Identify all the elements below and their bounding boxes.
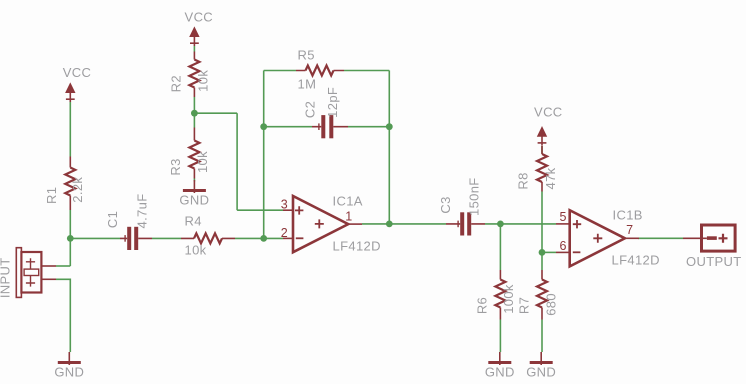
- svg-text:C2: C2: [302, 101, 317, 118]
- resistor R2: [189, 52, 199, 98]
- wire VCC to R8: [541, 146, 543, 154]
- svg-text:VCC: VCC: [534, 104, 563, 119]
- svg-text:10k: 10k: [195, 70, 210, 92]
- ground under R7: [530, 352, 553, 365]
- resistor R3: [189, 128, 199, 179]
- supply symbol VCC1: [66, 84, 75, 103]
- junction R7-R8 pin6 node: [539, 249, 546, 256]
- svg-text:6: 6: [560, 239, 567, 253]
- wire R4 to IC1A pin2: [235, 237, 283, 239]
- resistor R6: [495, 270, 505, 320]
- svg-text:LF412D: LF412D: [612, 253, 660, 268]
- svg-text:R6: R6: [475, 297, 490, 314]
- svg-text:R2: R2: [169, 75, 184, 92]
- microphone INPUT connector: [16, 248, 56, 298]
- svg-text:GND: GND: [526, 365, 556, 380]
- wire R7 to GND: [541, 320, 543, 353]
- svg-text:R7: R7: [517, 297, 532, 314]
- svg-text:10k: 10k: [195, 151, 210, 173]
- capacitor C2: [312, 115, 348, 138]
- svg-text:2.2k: 2.2k: [70, 177, 85, 203]
- svg-text:IC1B: IC1B: [613, 208, 643, 223]
- resistor R8: [537, 146, 547, 192]
- wire MIC pin1 horizontal: [56, 265, 70, 267]
- wire pin3 row: [237, 209, 283, 211]
- wire R1 to input node: [69, 210, 71, 238]
- resistor R5: [296, 66, 344, 76]
- ground under MIC: [58, 352, 81, 365]
- wire feedback right vertical: [388, 71, 390, 224]
- svg-text:12pF: 12pF: [325, 87, 340, 118]
- svg-text:1M: 1M: [298, 77, 317, 92]
- svg-text:IC1A: IC1A: [333, 194, 363, 209]
- svg-text:VCC: VCC: [185, 10, 214, 25]
- svg-text:10k: 10k: [185, 243, 207, 258]
- svg-text:5: 5: [560, 210, 567, 224]
- svg-text:VCC: VCC: [63, 65, 92, 80]
- wire C3 to pin5: [485, 223, 556, 225]
- wire feedback top left to R5: [264, 70, 296, 72]
- OUTPUT connector: [683, 225, 735, 251]
- wire IC1B output to OUTPUT: [638, 237, 683, 239]
- resistor R1: [65, 157, 75, 211]
- svg-text:GND: GND: [179, 193, 209, 208]
- wire pin6 node down to R7: [541, 252, 543, 270]
- wire input node to MIC pin1: [69, 238, 71, 266]
- svg-text:47k: 47k: [543, 167, 558, 189]
- wire R5 to feedback top right: [344, 70, 389, 72]
- svg-text:3: 3: [281, 198, 288, 212]
- capacitor C3: [446, 212, 485, 235]
- resistor R4: [181, 233, 235, 243]
- wire C2 row left: [264, 126, 312, 128]
- ground under R6: [488, 352, 511, 365]
- wire R3 to GND: [193, 179, 195, 182]
- junction C2 right node: [386, 123, 393, 130]
- wire input node to C1: [70, 237, 120, 239]
- svg-text:INPUT: INPUT: [0, 257, 12, 298]
- wire R8 down to pin6 node: [541, 192, 543, 253]
- svg-text:R3: R3: [168, 158, 183, 175]
- svg-text:C1: C1: [105, 211, 120, 228]
- svg-text:4.7uF: 4.7uF: [135, 194, 150, 229]
- supply symbol VCC2: [190, 28, 199, 47]
- wire C2 row right: [348, 126, 389, 128]
- junction IC1A output node: [386, 221, 393, 228]
- junction input node: [67, 235, 74, 242]
- svg-text:OUTPUT: OUTPUT: [686, 254, 742, 269]
- wire R6 to GND: [499, 320, 501, 353]
- wire IC1A output to C3: [362, 223, 446, 225]
- svg-text:2: 2: [281, 226, 288, 240]
- wire R2R3 node to pin3 riser: [194, 112, 237, 114]
- op-amp IC1B: [556, 210, 639, 266]
- supply symbol VCC3: [538, 127, 547, 146]
- wire C3 node down to R6: [499, 224, 501, 270]
- svg-text:680: 680: [543, 293, 558, 316]
- svg-text:GND: GND: [54, 365, 84, 380]
- svg-text:7: 7: [626, 223, 633, 237]
- svg-text:150nF: 150nF: [466, 177, 481, 216]
- wire pin6 node to IC1B pin6: [542, 251, 556, 253]
- ground under R3: [183, 180, 206, 193]
- wire MIC pin2 to GND: [56, 279, 70, 352]
- wire VCC to R2: [193, 46, 195, 52]
- junction C3-R6 node: [497, 221, 504, 228]
- junction R2-R3 node: [191, 110, 198, 117]
- svg-text:R8: R8: [515, 172, 530, 189]
- capacitor C1: [120, 227, 152, 250]
- wire VCC to R1: [69, 102, 71, 157]
- svg-text:LF412D: LF412D: [333, 239, 381, 254]
- svg-text:R1: R1: [44, 187, 59, 204]
- svg-text:C3: C3: [438, 196, 453, 213]
- svg-text:100k: 100k: [501, 284, 516, 314]
- svg-text:R4: R4: [185, 214, 202, 229]
- junction pin2 node: [260, 235, 267, 242]
- wire riser down to pin3 row: [236, 113, 238, 210]
- resistor R7: [537, 270, 547, 320]
- wire R2 to R3 node: [193, 97, 195, 128]
- op-amp IC1A: [283, 196, 362, 252]
- svg-text:1: 1: [345, 210, 352, 224]
- wire C1 to R4: [152, 237, 181, 239]
- svg-text:GND: GND: [485, 365, 515, 380]
- junction C2 left node: [260, 123, 267, 130]
- wire feedback left vertical: [263, 71, 265, 239]
- svg-text:R5: R5: [298, 48, 315, 63]
